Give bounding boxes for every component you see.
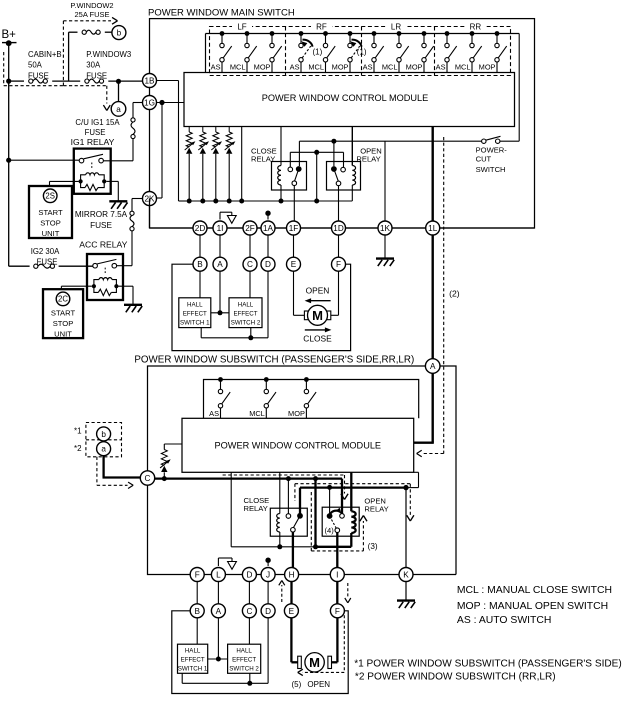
svg-text:MCL: MCL: [382, 62, 398, 71]
svg-text:(1): (1): [357, 48, 367, 57]
label IG1 RELAY: [71, 137, 115, 147]
wire power-cut switch feed: [385, 140, 482, 142]
svg-text:HALL: HALL: [236, 648, 252, 655]
svg-text:1K: 1K: [380, 224, 391, 233]
label CLOSE with arrow (main motor): [303, 327, 332, 343]
connector b (to subswitch): [112, 26, 126, 40]
svg-text:SWITCH 1: SWITCH 1: [180, 319, 210, 326]
wire B+ rail vertical: [8, 43, 10, 266]
svg-text:ACC RELAY: ACC RELAY: [79, 239, 127, 249]
svg-text:EFFECT: EFFECT: [233, 310, 257, 317]
wire close relay output to H (heavy): [292, 532, 294, 568]
wire D to C (sub): [248, 582, 250, 604]
wire open relay output to I (heavy): [336, 532, 338, 567]
svg-text:RELAY: RELAY: [364, 504, 388, 513]
toggle arrow (4) on open relay contact: [330, 508, 341, 514]
svg-text:b: b: [101, 430, 106, 439]
connector 1I: [213, 221, 227, 235]
wire drop to connector a: [118, 81, 120, 101]
relay OPEN coil (main): [352, 166, 355, 186]
dashed divider RF/LR: [361, 27, 363, 76]
connector K (sub row1): [399, 568, 413, 582]
svg-text:STOP: STOP: [53, 319, 74, 328]
svg-text:2C: 2C: [58, 295, 68, 304]
wire B+ rail to IG1 relay contact: [9, 159, 80, 161]
relay IG1 box: [74, 149, 111, 194]
svg-text:1D: 1D: [333, 224, 344, 233]
relay ACC box: [87, 254, 123, 300]
svg-text:HALL: HALL: [187, 301, 203, 308]
svg-text:OPEN: OPEN: [307, 680, 330, 689]
node ground rail to open COM: [327, 485, 332, 514]
fuse MIRROR 7.5A (vertical): [130, 211, 134, 231]
svg-text:F: F: [335, 607, 340, 616]
svg-text:AS: AS: [290, 62, 300, 71]
dashed box around connectors b/a (sub): [86, 423, 122, 457]
switch POWER-CUT: [482, 34, 520, 144]
dashed switch group box: [210, 27, 511, 76]
resistor at C input (sub): [160, 444, 182, 481]
battery terminal B+ label: [2, 29, 17, 41]
symbol arrow at L: [218, 558, 236, 569]
label group RR: [465, 22, 486, 32]
legend AS: [457, 615, 552, 626]
svg-text:AS : AUTO SWITCH: AS : AUTO SWITCH: [457, 615, 552, 626]
svg-text:A: A: [430, 362, 436, 371]
svg-text:MCL: MCL: [308, 62, 324, 71]
connector D (main): [261, 257, 275, 271]
label P.WINDOW2 25A FUSE: [70, 1, 113, 19]
label P.WINDOW3 30A FUSE: [86, 50, 131, 80]
symbol stub at 1A: [265, 211, 270, 220]
connector 1A: [261, 221, 275, 235]
svg-text:AS: AS: [209, 409, 219, 418]
hall effect switch 2 box (sub): [228, 644, 261, 673]
switch MOP (main, x=424): [406, 31, 434, 72]
connector 1D: [332, 221, 346, 235]
legend *2: [355, 671, 556, 682]
resistor (illumination driver, x=202.8): [198, 127, 209, 204]
wire relay common rail to 1K / power-cut: [299, 139, 385, 221]
svg-text:HALL: HALL: [238, 301, 254, 308]
connector 2D: [193, 221, 207, 235]
svg-text:2D: 2D: [195, 224, 206, 233]
wire 2D to B: [199, 235, 201, 257]
label *1 *2 (b a): [74, 427, 82, 453]
wire a to C (heavy): [103, 456, 141, 478]
node junction on 1G wire: [159, 100, 164, 105]
connector E (main): [287, 257, 301, 271]
dashed divider LR/RR: [434, 27, 436, 76]
svg-text:OPEN: OPEN: [306, 286, 330, 296]
switch MCL (main, x=325.5): [308, 31, 335, 72]
relay ACC contact: [93, 259, 117, 273]
connector 1F: [287, 221, 301, 235]
svg-text:C/U IG1 15A: C/U IG1 15A: [75, 118, 120, 127]
svg-text:MOP: MOP: [406, 62, 423, 71]
svg-text:RELAY: RELAY: [244, 504, 268, 513]
connector F (sub row1): [190, 568, 204, 582]
wire F to B (sub): [196, 582, 198, 604]
wire ground rail (sub heavy): [300, 472, 419, 490]
connector L (sub row1): [211, 568, 225, 582]
wire close coil to bus (sub): [277, 532, 282, 549]
svg-text:MCL: MCL: [249, 409, 265, 418]
connector C (sub): [242, 604, 256, 618]
wire IG1 coil to ground: [106, 181, 118, 201]
svg-text:E: E: [289, 607, 295, 616]
svg-text:(5): (5): [292, 680, 302, 689]
power window motor unit box (sub): [172, 611, 348, 694]
relay CLOSE box (sub): [270, 508, 307, 536]
ground at IG1 relay: [109, 201, 127, 209]
svg-text:STOP: STOP: [40, 219, 61, 228]
svg-text:30A: 30A: [86, 61, 101, 70]
svg-text:LF: LF: [237, 22, 246, 31]
label START STOP UNIT (2S): [38, 208, 63, 238]
hall effect switch 1 box (main): [179, 298, 211, 328]
svg-text:I: I: [336, 570, 338, 579]
relay CLOSE contact (sub): [286, 513, 303, 532]
wire open coil to bus (sub): [350, 533, 352, 547]
legend *1: [354, 658, 622, 669]
symbol stub at J: [265, 558, 270, 567]
switch AS (main, x=222): [211, 31, 232, 72]
wire 1A to D: [267, 235, 269, 257]
ground at ACC relay: [124, 305, 142, 313]
label (5) OPEN: [292, 680, 331, 689]
connector F (sub): [330, 604, 344, 618]
wire D to hall bottoms (sub): [182, 618, 268, 686]
svg-text:MCL: MCL: [455, 62, 471, 71]
svg-text:2F: 2F: [245, 224, 255, 233]
motor M (sub): [298, 653, 332, 672]
label group RF: [311, 22, 332, 32]
toggle arrow (1) on RF AS switch: [301, 40, 322, 57]
power window control module box (sub): [182, 418, 414, 472]
wire close COM to ground rail (heavy): [299, 488, 301, 516]
relay OPEN contact (sub): [327, 513, 345, 532]
svg-text:MCL : MANUAL CLOSE SWITCH: MCL : MANUAL CLOSE SWITCH: [457, 585, 612, 596]
label POWER WINDOW MAIN SWITCH: [148, 7, 295, 18]
fuse IG2 30A: [34, 264, 55, 268]
svg-text:POWER WINDOW MAIN SWITCH: POWER WINDOW MAIN SWITCH: [148, 7, 295, 18]
wire E to motor (sub heavy): [291, 618, 297, 663]
wire module to open coil (sub heavy): [350, 472, 352, 511]
switch MCL (main, x=472): [455, 31, 482, 72]
wire sub module drop to coil bus: [230, 472, 232, 547]
relay ACC coil with parallel resistor: [92, 278, 119, 296]
label OPEN RELAY (main): [356, 146, 381, 163]
wire 1G to C/U IG1 fuse: [133, 103, 143, 118]
wire fuse to IG1 relay contact: [103, 139, 133, 161]
label MIRROR 7.5A FUSE: [75, 210, 128, 230]
svg-text:MOP: MOP: [332, 62, 349, 71]
connector a (sub): [97, 442, 111, 456]
label POWER WINDOW SUBSWITCH: [134, 354, 414, 365]
svg-text:D: D: [265, 607, 271, 616]
svg-text:M: M: [312, 308, 323, 323]
svg-text:1A: 1A: [263, 224, 274, 233]
resistor (illumination driver, x=215.8): [211, 127, 222, 204]
relay OPEN box (sub): [322, 507, 359, 536]
svg-text:POWER-: POWER-: [476, 146, 508, 155]
svg-text:UNIT: UNIT: [42, 229, 60, 238]
svg-text:F: F: [336, 260, 341, 269]
node junction to connector a: [116, 79, 121, 84]
dashed arrow up at H: [279, 581, 285, 603]
resistor (illumination driver, x=229.2): [225, 127, 236, 204]
svg-text:SWITCH: SWITCH: [476, 165, 506, 174]
label OPEN RELAY (sub): [364, 497, 388, 514]
svg-text:1B: 1B: [144, 76, 155, 85]
svg-text:H: H: [289, 570, 295, 579]
label ACC RELAY: [79, 239, 127, 249]
wire main box bottom row: [150, 199, 535, 229]
label POWER WINDOW CONTROL MODULE (sub): [215, 441, 382, 451]
wire D to hall bottoms (main): [201, 271, 268, 340]
svg-text:RR: RR: [470, 22, 482, 31]
relay CLOSE coil (main): [278, 166, 281, 186]
power window subswitch outer box: [148, 366, 457, 575]
svg-text:FUSE: FUSE: [85, 128, 106, 137]
connector A (sub): [211, 604, 225, 618]
wire F to motor (main): [331, 271, 339, 315]
switch MCL (sub): [249, 377, 276, 418]
switch MOP (main, x=497): [479, 31, 507, 72]
unit 2S START STOP UNIT box: [29, 186, 72, 238]
relay IG1 coil with parallel resistor: [79, 173, 107, 191]
connector E (sub): [284, 604, 298, 618]
connector 2S: [43, 189, 57, 203]
wire close NC to open NC link: [290, 150, 343, 204]
switch AS (main, x=447): [436, 31, 457, 72]
wire F to motor (sub heavy): [332, 618, 338, 663]
wire A to halls (sub): [208, 618, 228, 662]
svg-text:FUSE: FUSE: [86, 71, 107, 80]
svg-text:E: E: [291, 260, 297, 269]
svg-text:AS: AS: [363, 62, 373, 71]
fuse CABIN+B 50A: [29, 79, 48, 83]
label group LF: [232, 22, 252, 32]
connector I (sub row1): [330, 568, 344, 582]
svg-text:MOP: MOP: [479, 62, 496, 71]
svg-text:B: B: [197, 260, 203, 269]
node junction on B+ rail at fuse row: [6, 79, 11, 84]
dashed signal route (2) to sub module: [417, 137, 444, 457]
svg-text:50A: 50A: [28, 61, 43, 70]
svg-text:FUSE: FUSE: [28, 71, 49, 80]
resistor (illumination driver, x=189.2): [185, 127, 196, 204]
dashed arrow down at I: [345, 583, 351, 603]
svg-text:SWITCH 1: SWITCH 1: [178, 666, 208, 673]
wire ACC coil to 2C unit: [61, 286, 91, 289]
wire 1D to F: [338, 235, 340, 257]
svg-text:M: M: [309, 655, 320, 670]
svg-text:(2): (2): [449, 288, 460, 298]
connector D (sub): [261, 604, 275, 618]
wire ground rail to K: [405, 488, 407, 568]
label IG2 30A FUSE: [31, 247, 60, 266]
wire module to close relay coil (main): [280, 127, 282, 166]
svg-text:25A FUSE: 25A FUSE: [74, 10, 109, 19]
wire close relay output to 1F: [293, 185, 295, 221]
svg-text:J: J: [266, 570, 270, 579]
power window main switch outer box: [150, 19, 535, 228]
svg-text:1F: 1F: [289, 224, 299, 233]
relay OPEN contact (main): [331, 166, 345, 186]
wire C to hall 2 (sub): [248, 618, 250, 644]
node C bus to relay coil bus (heavy): [313, 476, 318, 549]
switch MOP (main, x=350): [332, 31, 360, 72]
ground at 1K: [376, 259, 394, 267]
wire open relay output to 1D: [338, 186, 340, 221]
node junction on B+ rail at IG1 relay wire: [6, 158, 11, 163]
fuse P.WINDOW2 25A: [82, 30, 100, 34]
fuse P.WINDOW3 30A: [85, 79, 104, 83]
svg-text:IG1 RELAY: IG1 RELAY: [71, 137, 115, 147]
svg-text:K: K: [403, 570, 409, 579]
svg-text:C: C: [145, 474, 151, 483]
ground at K: [397, 601, 415, 609]
svg-text:CLOSE: CLOSE: [303, 333, 332, 343]
wire relay coil bus (sub): [231, 546, 351, 548]
svg-text:IG2 30A: IG2 30A: [31, 247, 60, 256]
svg-text:RF: RF: [316, 22, 327, 31]
relay CLOSE coil (sub): [277, 514, 280, 533]
connector a (to subswitch): [111, 102, 126, 117]
legend MOP: [457, 601, 608, 612]
motor M (main): [304, 305, 330, 325]
connector 1L: [426, 221, 440, 235]
connector J (sub row1): [261, 568, 275, 582]
switch MCL (main, x=247): [230, 31, 257, 72]
svg-text:1I: 1I: [217, 224, 224, 233]
wire 1G junction down to 2K: [157, 103, 163, 199]
hall effect switch 1 box (sub): [178, 644, 208, 673]
svg-text:SWITCH 2: SWITCH 2: [231, 319, 261, 326]
wire B to hall 1 (sub): [196, 618, 198, 644]
svg-text:POWER WINDOW SUBSWITCH (PASSEN: POWER WINDOW SUBSWITCH (PASSENGER'S SIDE…: [134, 354, 414, 365]
svg-text:MOP : MANUAL OPEN SWITCH: MOP : MANUAL OPEN SWITCH: [457, 601, 608, 612]
wire E to motor (main): [294, 271, 305, 315]
label C/U IG1 15A FUSE: [75, 118, 120, 137]
wire B+ rail to IG2 fuse: [9, 265, 93, 267]
label group LR: [386, 22, 407, 32]
svg-text:FUSE: FUSE: [90, 221, 112, 230]
svg-text:L: L: [216, 570, 221, 579]
svg-text:*1: *1: [74, 427, 82, 436]
power window control module box (main): [184, 73, 515, 127]
svg-text:AS: AS: [211, 62, 221, 71]
svg-text:D: D: [265, 260, 271, 269]
svg-text:MOP: MOP: [288, 409, 305, 418]
svg-text:(4): (4): [325, 526, 335, 535]
svg-text:C: C: [247, 260, 253, 269]
svg-text:MOP: MOP: [254, 62, 271, 71]
label CABIN+B 50A FUSE: [28, 50, 62, 80]
power window motor unit box (main): [172, 264, 351, 350]
wire J to D (sub): [267, 582, 269, 604]
svg-text:LR: LR: [391, 22, 401, 31]
svg-text:a: a: [101, 445, 106, 454]
svg-text:AS: AS: [436, 62, 446, 71]
connector 1B: [143, 74, 157, 88]
svg-text:*2: *2: [74, 444, 82, 453]
svg-text:SWITCH 2: SWITCH 2: [229, 666, 259, 673]
hall effect switch 2 box (main): [229, 298, 262, 328]
dashed arrow into C: [97, 457, 133, 489]
label CLOSE RELAY (main): [251, 146, 277, 163]
relay CLOSE box (main): [272, 162, 307, 191]
svg-text:CABIN+B: CABIN+B: [28, 50, 62, 59]
label (4): [325, 526, 335, 535]
wire riser to P.WINDOW2 fuse: [69, 32, 112, 81]
unit 2C START STOP UNIT box: [43, 289, 83, 338]
label CLOSE RELAY (sub): [244, 496, 270, 513]
label OPEN with arrow (main motor): [305, 286, 331, 304]
connector 1K: [378, 221, 392, 235]
svg-text:A: A: [216, 607, 222, 616]
svg-text:*1 POWER WINDOW SUBSWITCH (PAS: *1 POWER WINDOW SUBSWITCH (PASSENGER'S S…: [354, 658, 622, 669]
svg-text:HALL: HALL: [185, 648, 201, 655]
switch MCL (main, x=399): [382, 31, 409, 72]
svg-text:a: a: [116, 105, 121, 114]
connector F (main): [332, 257, 346, 271]
dashed divider LF/RF: [285, 27, 287, 76]
wire 1I to A: [219, 235, 221, 257]
connector D (sub row1): [242, 568, 256, 582]
fuse C/U IG1 15A (vertical): [131, 118, 135, 139]
label (2): [449, 288, 460, 298]
svg-text:2S: 2S: [45, 192, 55, 201]
svg-text:MCL: MCL: [230, 62, 246, 71]
connector 2F: [243, 221, 257, 235]
wire A to hall sensors (main): [211, 271, 229, 315]
svg-text:B: B: [194, 607, 200, 616]
switch AS (main, x=374): [363, 31, 384, 72]
label (3): [368, 542, 378, 551]
wire 1L to connector A (heavy): [432, 235, 434, 359]
wire open coil to resistor bus: [351, 185, 353, 201]
dashed route (3) box top to arrow at open relay: [295, 484, 414, 521]
svg-text:D: D: [246, 570, 252, 579]
wire C bus (heavy): [155, 479, 342, 514]
connector B (sub): [190, 604, 204, 618]
svg-text:START: START: [38, 208, 63, 217]
svg-text:C: C: [246, 607, 252, 616]
dashed route into close relay area: [223, 475, 349, 500]
svg-text:(3): (3): [368, 542, 378, 551]
svg-text:EFFECT: EFFECT: [232, 657, 256, 664]
svg-text:b: b: [117, 29, 122, 38]
wire module to open relay coil (main): [351, 127, 353, 166]
wire I to F (sub heavy): [336, 582, 338, 604]
dashed box (3) around open relay: [311, 492, 367, 551]
wire 1K to ground: [384, 235, 386, 258]
symbol arrow at 1I: [220, 212, 236, 223]
wire mirror fuse to ACC relay contact: [117, 231, 132, 266]
connector A (main): [213, 257, 227, 271]
svg-text:B+: B+: [2, 29, 17, 41]
svg-text:CUT: CUT: [476, 154, 492, 163]
relay CLOSE contact (main): [288, 166, 302, 185]
wire resistor bus: [187, 200, 353, 202]
node C bus to close NC: [286, 476, 291, 514]
connector H (sub row1): [285, 568, 299, 582]
wire 2F to C: [249, 235, 251, 257]
wire IG1 coil to 2S unit: [50, 181, 79, 186]
